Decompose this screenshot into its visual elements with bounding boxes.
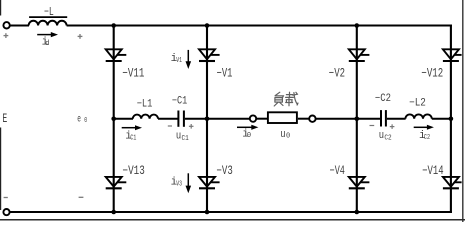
svg-text:0: 0 [84, 117, 87, 125]
svg-text:−V11: −V11 [122, 67, 144, 81]
node bottom/col3 [355, 210, 360, 215]
svg-text:−V13: −V13 [123, 164, 145, 178]
thyristor V11 [106, 49, 127, 61]
svg-text:−C2: −C2 [375, 93, 391, 105]
inductor L [29, 17, 68, 25]
terminal top-left (+) [3, 22, 9, 28]
svg-text:u: u [280, 129, 285, 141]
thyristor V1 [199, 49, 220, 61]
svg-text:−V14: −V14 [422, 164, 443, 178]
load resistor box [268, 112, 297, 123]
node bottom/col1 [111, 210, 116, 215]
polarity - (e0 bottom) [79, 196, 84, 198]
wire [10, 24, 29, 26]
svg-text:−C1: −C1 [172, 96, 188, 108]
current arrow i_0 [237, 125, 258, 141]
thyristor V14 [443, 177, 462, 188]
svg-text:−L1: −L1 [137, 98, 153, 110]
node top/col3 [355, 23, 360, 28]
wire column 2 [206, 26, 208, 213]
svg-text:C2: C2 [424, 134, 430, 142]
svg-text:−V3: −V3 [217, 164, 233, 178]
wire column 4 [450, 25, 452, 214]
polarity + (e0 top) [78, 34, 83, 39]
svg-text:V3: V3 [176, 181, 182, 189]
wire [207, 118, 250, 120]
svg-text:e: e [77, 114, 81, 126]
terminal load-left [250, 115, 256, 121]
svg-text:−V1: −V1 [217, 67, 233, 81]
capacitor C2 [381, 110, 386, 126]
wire top bus [67, 24, 452, 26]
polarity - (E bottom) [4, 197, 8, 199]
svg-text:C1: C1 [182, 135, 190, 143]
wire [185, 118, 207, 120]
node bottom/col2 [205, 210, 210, 215]
svg-text:−V4: −V4 [330, 164, 345, 178]
svg-text:0: 0 [286, 132, 290, 140]
wire bottom bus [10, 211, 452, 213]
node top/col1 [111, 23, 116, 28]
current arrow i_V1 [171, 50, 192, 69]
wire [387, 118, 406, 120]
polarity - (uC2) [370, 125, 375, 127]
thyristor V13 [106, 177, 127, 188]
node mid/col4 [449, 117, 454, 122]
label 负载 (load) [274, 92, 298, 106]
wire [316, 118, 357, 120]
polarity + (E top) [4, 33, 9, 38]
node mid/col1 [111, 117, 116, 122]
svg-text:u: u [176, 131, 181, 143]
current arrow i_C1 [122, 125, 142, 142]
thyristor V12 [443, 49, 462, 61]
svg-text:−L: −L [44, 5, 54, 19]
svg-text:−V12: −V12 [421, 67, 443, 81]
node mid/col3 [355, 117, 360, 122]
wire [357, 118, 380, 120]
wire [432, 118, 451, 120]
svg-text:E: E [2, 111, 7, 126]
svg-text:C1: C1 [130, 134, 136, 142]
svg-text:−V2: −V2 [329, 67, 345, 81]
svg-text:−L2: −L2 [409, 97, 426, 109]
terminal bottom-left (-) [3, 209, 9, 215]
node top/col2 [205, 23, 210, 28]
current arrow i_d [37, 32, 58, 48]
inductor L1 [133, 115, 158, 119]
terminal load-right [309, 116, 315, 122]
current arrow i_C2 [414, 125, 434, 142]
svg-text:C2: C2 [384, 134, 391, 142]
wire [298, 118, 309, 120]
polarity + (uC2) [390, 124, 395, 129]
inductor L2 [405, 114, 431, 118]
thyristor V3 [199, 177, 220, 188]
svg-text:V1: V1 [176, 57, 182, 65]
node mid/col2 [205, 117, 210, 122]
wire [256, 118, 267, 120]
capacitor C1 [178, 111, 184, 127]
border frame (decorative) [0, 0, 2, 16]
svg-text:u: u [379, 130, 384, 142]
polarity - (uC1) [168, 125, 172, 127]
wire [114, 118, 133, 120]
polarity + (uC1) [189, 124, 194, 129]
wire column 1 [113, 26, 115, 213]
svg-text:0: 0 [247, 132, 251, 140]
svg-text:d: d [45, 40, 49, 48]
thyristor V4 [349, 177, 370, 188]
wire [158, 118, 178, 120]
wire column 3 [356, 26, 358, 213]
current arrow i_V3 [171, 173, 192, 193]
thyristor V2 [349, 49, 370, 61]
